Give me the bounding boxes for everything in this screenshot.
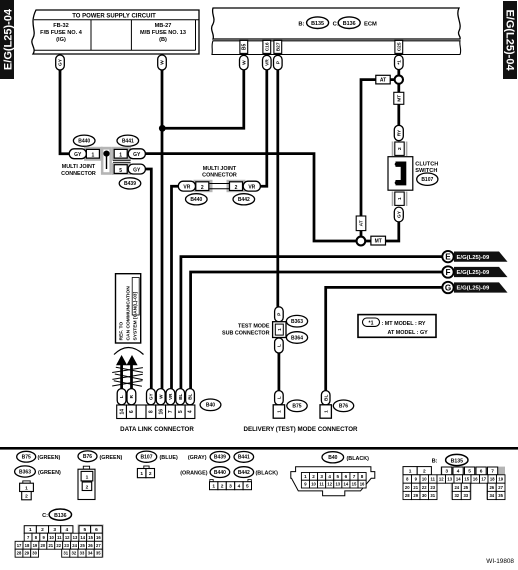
wire GY from multi joint connector B439 to data link connector pin 8: [144, 169, 151, 390]
svg-text:E/G(L25)-09: E/G(L25)-09: [457, 286, 490, 292]
svg-text:MULTI JOINT: MULTI JOINT: [203, 166, 237, 172]
svg-text:B107: B107: [141, 454, 153, 460]
svg-text:GY: GY: [58, 58, 64, 66]
wire W from MB-27 fuse down to data link connector pin 16: [161, 68, 164, 390]
svg-text:(BLUE): (BLUE): [160, 455, 178, 461]
svg-text:1: 1: [92, 153, 95, 159]
svg-text:18: 18: [25, 543, 30, 548]
svg-text:W: W: [160, 60, 166, 65]
pin 1 B440: [86, 149, 99, 158]
pin 1 clutch switch: [393, 192, 407, 207]
wire *1 from ECM pin C25 to node: [397, 68, 400, 76]
svg-text:15: 15: [88, 535, 93, 540]
svg-text:5: 5: [119, 168, 122, 174]
label BL delivery connector: [321, 391, 330, 405]
svg-text:7: 7: [168, 410, 174, 413]
svg-text:1: 1: [397, 197, 403, 200]
svg-text:15: 15: [464, 477, 469, 482]
svg-text:BL: BL: [188, 393, 193, 399]
pin C16: [263, 40, 271, 53]
svg-text:1: 1: [277, 328, 283, 331]
svg-text:11: 11: [431, 477, 436, 482]
svg-text:B363: B363: [19, 469, 31, 475]
svg-text:16: 16: [473, 477, 478, 482]
svg-text:35: 35: [96, 551, 101, 556]
svg-text:2: 2: [201, 185, 204, 191]
svg-text:B40: B40: [328, 455, 337, 461]
svg-text:22: 22: [56, 543, 61, 548]
pin 2 B442: [230, 182, 243, 191]
svg-text:E/G(L25)-04: E/G(L25)-04: [2, 8, 14, 70]
connector view B107 face: [137, 466, 154, 478]
wire clutch switch GY lead down to lower MT junction: [365, 222, 399, 242]
svg-text:AT: AT: [359, 220, 365, 226]
connector view B75 (GREEN): [17, 451, 61, 462]
wire GY from multi joint connector B441 to lower junction: [144, 154, 357, 241]
svg-text:2: 2: [423, 468, 426, 474]
arrow G E/G(L25)-09: [442, 282, 507, 293]
connector view B76 (GREEN): [78, 451, 122, 462]
svg-text:: MT MODEL : RY: : MT MODEL : RY: [382, 321, 426, 327]
ref to CAN communication system box: [116, 274, 141, 343]
label BL data link pin: [186, 389, 195, 405]
wire VR from multi joint connector B440 to data link connector pin 7: [172, 186, 179, 390]
connector view B363 (GREEN): [15, 466, 61, 477]
label *1 ECM wire: [395, 55, 404, 69]
connector B75 oval: [287, 400, 307, 412]
svg-text:18: 18: [490, 477, 495, 482]
svg-text:6: 6: [345, 474, 348, 479]
svg-text:B441: B441: [122, 138, 134, 144]
note box *1 MT/AT model: [358, 315, 436, 338]
mating lines B441/B439: [113, 160, 131, 162]
svg-text:VR: VR: [248, 185, 255, 191]
svg-text:7: 7: [491, 469, 494, 475]
label GY B439: [128, 164, 145, 174]
svg-text:30: 30: [32, 551, 37, 556]
svg-text:(IG): (IG): [56, 37, 66, 43]
svg-text:B107: B107: [421, 177, 433, 183]
svg-text:(GREEN): (GREEN): [38, 455, 61, 461]
svg-text:L: L: [119, 395, 124, 398]
svg-text:(GREEN): (GREEN): [38, 470, 61, 476]
mating lines B440/B442: [210, 184, 230, 189]
twisted pair arrowhead R: [126, 355, 137, 365]
svg-text:TO POWER SUPPLY CIRCUIT: TO POWER SUPPLY CIRCUIT: [72, 13, 156, 19]
svg-text:(GREEN): (GREEN): [100, 455, 123, 461]
svg-text:SUB CONNECTOR: SUB CONNECTOR: [222, 330, 270, 336]
connector view B107 (BLUE): [136, 451, 178, 462]
wire multi joint bus: [106, 154, 108, 169]
svg-text:B440: B440: [190, 197, 202, 203]
pin B5: [240, 40, 248, 53]
svg-text:2: 2: [235, 185, 238, 191]
svg-text:3: 3: [53, 527, 56, 533]
svg-text:26: 26: [489, 485, 494, 490]
svg-text:10: 10: [422, 477, 427, 482]
page tab left E/G(L25)-04: [0, 0, 14, 79]
svg-text:5: 5: [337, 474, 340, 479]
svg-text:CONNECTOR: CONNECTOR: [202, 173, 237, 179]
wire BL pin 4 data link connector to arrow F: [191, 272, 443, 390]
label MT upper: [394, 92, 404, 104]
wire R data link connector pin 6 twisted pair: [130, 362, 133, 390]
svg-text:E/G(L25)-09: E/G(L25)-09: [457, 270, 490, 276]
connector B363 oval: [286, 315, 307, 327]
svg-text:25: 25: [80, 543, 85, 548]
connector B440 oval: [73, 135, 95, 146]
label RY: [394, 125, 403, 140]
svg-text:M/B FUSE NO. 13: M/B FUSE NO. 13: [140, 30, 186, 36]
svg-text:1: 1: [140, 471, 143, 477]
svg-text:2: 2: [312, 474, 315, 479]
svg-text:G: G: [445, 283, 451, 292]
svg-text:2: 2: [25, 494, 28, 500]
multi joint connector housing left: [84, 147, 131, 175]
label W supply wire: [158, 55, 167, 70]
pin 2 clutch switch: [393, 142, 407, 157]
label L test mode: [275, 338, 284, 353]
svg-text:10: 10: [49, 535, 54, 540]
junction W wires: [159, 125, 166, 132]
connector B439 oval: [119, 178, 141, 189]
svg-text:14: 14: [456, 477, 461, 482]
svg-text:B440: B440: [78, 138, 90, 144]
svg-text:5: 5: [83, 527, 86, 533]
svg-text:E/G(L25)-04: E/G(L25)-04: [504, 9, 516, 71]
label L data link pin: [117, 389, 126, 405]
svg-text:W: W: [158, 394, 163, 399]
svg-text:8: 8: [149, 410, 155, 413]
svg-text:14: 14: [119, 409, 125, 415]
svg-text:B76: B76: [83, 454, 92, 460]
svg-text:11: 11: [319, 482, 324, 487]
arrow F E/G(L25)-09: [442, 266, 507, 277]
svg-text:B442: B442: [238, 470, 250, 476]
svg-text:AT MODEL : GY: AT MODEL : GY: [388, 330, 429, 336]
connector views B439 B441 (GRAY): [188, 452, 254, 463]
pin B27: [274, 40, 282, 53]
svg-text:(GRAY): (GRAY): [188, 455, 207, 461]
svg-text:27: 27: [498, 485, 503, 490]
svg-text:3: 3: [320, 474, 323, 479]
pin C25: [395, 40, 403, 53]
separator rule: [0, 447, 518, 450]
svg-text:MB-27: MB-27: [155, 23, 172, 29]
svg-text:GY: GY: [149, 393, 154, 400]
svg-text:2: 2: [221, 483, 224, 489]
svg-text:4: 4: [457, 469, 460, 475]
label GY B440: [69, 149, 86, 159]
svg-text:FB-32: FB-32: [53, 23, 69, 29]
svg-text:VR: VR: [264, 59, 270, 66]
svg-text:23: 23: [430, 485, 435, 490]
label BL data link pin: [176, 389, 185, 405]
svg-text:C16: C16: [264, 42, 270, 51]
svg-text:F: F: [445, 268, 450, 277]
connector view B B135 grid: [403, 454, 505, 499]
svg-text:F/B FUSE NO. 4: F/B FUSE NO. 4: [40, 30, 83, 36]
svg-text:12: 12: [439, 477, 444, 482]
wire MT branch node to clutch switch: [397, 84, 400, 126]
svg-text:B75: B75: [22, 454, 31, 460]
node junction lower AT/MT: [357, 237, 366, 246]
wire W from ECM pin B5 to junction: [163, 68, 244, 128]
label AT lower: [356, 216, 366, 231]
svg-text:20: 20: [405, 485, 410, 490]
page tab right E/G(L25)-04: [503, 1, 517, 79]
svg-text:14: 14: [80, 535, 85, 540]
svg-text:1: 1: [29, 527, 32, 533]
connector B441 oval: [117, 135, 139, 146]
wire BL pin 5 data link connector to arrow E: [181, 257, 443, 390]
svg-text:1: 1: [323, 410, 329, 413]
svg-text:28: 28: [405, 493, 410, 498]
svg-text:B136: B136: [54, 513, 67, 519]
arrow E E/G(L25)-09: [442, 251, 507, 262]
svg-text:MT: MT: [375, 238, 382, 244]
svg-text:B135: B135: [311, 21, 324, 27]
svg-text:24: 24: [72, 543, 77, 548]
svg-text:1: 1: [86, 474, 89, 480]
wire BL delivery mode connector B76 to arrow G: [326, 287, 443, 392]
svg-text:2: 2: [86, 484, 89, 490]
svg-text:5: 5: [468, 469, 471, 475]
svg-text:B439: B439: [124, 181, 136, 187]
connector B364 oval: [286, 332, 307, 344]
label P test mode: [275, 307, 284, 322]
svg-text:32: 32: [72, 551, 77, 556]
svg-text:5: 5: [178, 410, 184, 413]
label VR B440: [178, 181, 195, 191]
svg-text:B75: B75: [292, 404, 301, 410]
svg-text:B136: B136: [343, 21, 356, 27]
pin 5 B439: [114, 165, 127, 174]
svg-text:6: 6: [95, 527, 98, 533]
label L delivery connector: [275, 391, 284, 405]
svg-text:29: 29: [24, 551, 29, 556]
svg-text:21: 21: [413, 485, 418, 490]
svg-text:2: 2: [41, 527, 44, 533]
svg-text:3: 3: [229, 483, 232, 489]
label W data link pin: [156, 389, 165, 405]
svg-text:BL: BL: [178, 393, 183, 399]
svg-text:SYSTEM [CAN(L)-03]: SYSTEM [CAN(L)-03]: [132, 291, 138, 340]
label GY B441: [128, 149, 145, 159]
twisted pair arrowhead L: [116, 355, 127, 365]
label GY supply wire: [56, 55, 65, 70]
twisted pair hatch lines: [112, 367, 143, 386]
multi joint connector label right: [202, 166, 237, 179]
svg-text:34: 34: [489, 493, 494, 498]
connector B76 oval: [333, 400, 353, 412]
junction dot multi joint bus: [103, 151, 109, 157]
svg-text:8: 8: [361, 474, 364, 479]
pin 1 delivery connector B76: [320, 405, 331, 418]
svg-text:GY: GY: [396, 210, 402, 218]
svg-text:26: 26: [88, 543, 93, 548]
svg-text:B439: B439: [214, 455, 226, 461]
svg-text:29: 29: [413, 493, 418, 498]
svg-text:4: 4: [65, 527, 68, 533]
svg-text:35: 35: [498, 493, 503, 498]
svg-text:L: L: [277, 396, 283, 399]
svg-text:B363: B363: [291, 319, 303, 325]
svg-text:3: 3: [445, 469, 448, 475]
svg-text:19: 19: [33, 543, 38, 548]
svg-text:GY: GY: [133, 152, 141, 158]
connector view B439/B440 face 5 pins: [210, 480, 252, 490]
svg-text:13: 13: [335, 482, 340, 487]
label AT upper: [376, 75, 390, 84]
svg-text:31: 31: [63, 551, 68, 556]
label W ECM wire: [240, 55, 249, 70]
svg-text:6: 6: [129, 410, 135, 413]
clutch switch label: [415, 161, 438, 174]
delivery mode connector label: [243, 426, 358, 433]
wire L test mode sub connector to delivery mode connector B75: [278, 351, 281, 392]
svg-text:B40: B40: [206, 403, 215, 409]
data link connector pin row: [117, 405, 195, 419]
svg-text:12: 12: [327, 482, 332, 487]
power supply circuit box FB-32 / MB-27: [32, 10, 199, 54]
svg-text:5: 5: [246, 483, 249, 489]
svg-text:17: 17: [17, 543, 22, 548]
pin 1 B441: [114, 149, 127, 158]
svg-text:16: 16: [96, 535, 101, 540]
svg-text:*1: *1: [396, 60, 402, 65]
footer WI-19808: [486, 558, 514, 565]
svg-text:13: 13: [447, 477, 452, 482]
connector B440 oval right: [186, 194, 208, 205]
svg-text:E/G(L25)-09: E/G(L25)-09: [457, 255, 490, 261]
wire L data link connector pin 14 twisted pair: [120, 362, 123, 390]
svg-text:CLUTCH: CLUTCH: [415, 161, 438, 167]
svg-text:BL: BL: [323, 395, 329, 401]
svg-text:DELIVERY (TEST) MODE CONNECTOR: DELIVERY (TEST) MODE CONNECTOR: [243, 426, 358, 433]
connector view B40 face OBD: [291, 467, 375, 496]
svg-text:20: 20: [41, 543, 46, 548]
svg-text:16: 16: [360, 482, 365, 487]
connector B107 oval: [417, 173, 438, 185]
svg-text:RY: RY: [396, 129, 402, 136]
pin 1 delivery connector B75: [273, 405, 284, 418]
connector view B40 (BLACK): [322, 452, 369, 463]
svg-text:C25: C25: [396, 42, 402, 51]
svg-text:17: 17: [481, 477, 486, 482]
svg-text:GY: GY: [74, 152, 82, 158]
connector view B75/B363 face: [20, 481, 34, 500]
svg-text:B440: B440: [214, 470, 226, 476]
label MT lower: [371, 236, 386, 245]
svg-text:24: 24: [454, 485, 459, 490]
svg-text:B:: B:: [298, 22, 304, 28]
svg-text:6: 6: [480, 469, 483, 475]
node junction AT/MT at C25: [395, 75, 403, 83]
svg-text:B135: B135: [451, 458, 464, 464]
svg-text:1: 1: [212, 483, 215, 489]
svg-text:4: 4: [188, 410, 194, 413]
svg-text:1: 1: [277, 410, 283, 413]
wire GY from FB-32 fuse to multi joint connector B440: [60, 68, 70, 154]
label VR data link pin: [166, 389, 175, 405]
connector B442 oval: [233, 194, 255, 205]
svg-text:1: 1: [409, 468, 412, 474]
svg-text:4: 4: [238, 483, 241, 489]
connector view B76 face: [78, 466, 95, 499]
twisted pair arc: [114, 348, 144, 355]
svg-text:33: 33: [80, 551, 85, 556]
svg-text:B76: B76: [339, 404, 348, 410]
svg-text:14: 14: [344, 482, 349, 487]
svg-text:27: 27: [96, 543, 101, 548]
ECM box B135/B136: [212, 8, 461, 55]
svg-text:32: 32: [454, 493, 459, 498]
svg-text:MT: MT: [396, 95, 402, 102]
svg-text:VR: VR: [168, 393, 173, 400]
clutch switch B107: [388, 157, 413, 191]
label P ECM wire: [274, 55, 283, 70]
connector B40 oval: [200, 399, 221, 411]
svg-text:1: 1: [304, 474, 307, 479]
svg-text:E: E: [445, 253, 451, 262]
svg-text:(BLACK): (BLACK): [347, 456, 370, 462]
svg-text:VR: VR: [183, 185, 190, 191]
svg-text:19: 19: [498, 477, 503, 482]
connector view C B136 grid: [15, 509, 104, 558]
svg-text:16: 16: [158, 409, 164, 415]
wire VR from ECM pin C16 to multi joint connector B442: [259, 68, 267, 186]
svg-text:31: 31: [430, 493, 435, 498]
svg-text:1: 1: [25, 485, 28, 491]
connector views B440 B442 (ORANGE)(BLACK): [180, 467, 278, 478]
svg-text:GY: GY: [133, 168, 141, 174]
svg-text:7: 7: [353, 474, 356, 479]
svg-text:TEST MODE: TEST MODE: [238, 323, 270, 329]
svg-text:W: W: [241, 60, 247, 65]
label GY clutch lead: [394, 207, 403, 222]
svg-text:2: 2: [397, 147, 403, 150]
wire AT branch from node to lower node: [361, 80, 395, 237]
svg-text:B5: B5: [242, 43, 248, 50]
svg-text:B441: B441: [238, 455, 250, 461]
svg-text:4: 4: [328, 474, 331, 479]
multi joint connector housing right: [194, 180, 246, 192]
svg-text:AT: AT: [380, 77, 386, 83]
svg-text:15: 15: [352, 482, 357, 487]
svg-text:28: 28: [17, 551, 22, 556]
pin 1 test mode sub connector: [273, 322, 286, 338]
svg-text:CAN COMMUNICATION: CAN COMMUNICATION: [125, 286, 131, 341]
data link connector label: [120, 426, 194, 433]
svg-text:11: 11: [57, 535, 62, 540]
pin 2 B440: [196, 182, 209, 191]
svg-text:B:: B:: [432, 458, 438, 464]
svg-text:MULTI JOINT: MULTI JOINT: [62, 164, 96, 170]
svg-text:30: 30: [422, 493, 427, 498]
label GY data link pin: [147, 389, 156, 405]
svg-text:22: 22: [422, 485, 427, 490]
label R data link pin: [127, 389, 136, 405]
svg-text:(BLACK): (BLACK): [256, 470, 279, 476]
svg-text:DATA LINK CONNECTOR: DATA LINK CONNECTOR: [120, 426, 194, 433]
svg-text:ECM: ECM: [364, 22, 377, 28]
svg-text:13: 13: [73, 535, 78, 540]
svg-text:23: 23: [64, 543, 69, 548]
test mode sub connector label: [222, 323, 270, 336]
svg-text:*1: *1: [369, 321, 374, 327]
svg-text:B27: B27: [275, 42, 281, 51]
